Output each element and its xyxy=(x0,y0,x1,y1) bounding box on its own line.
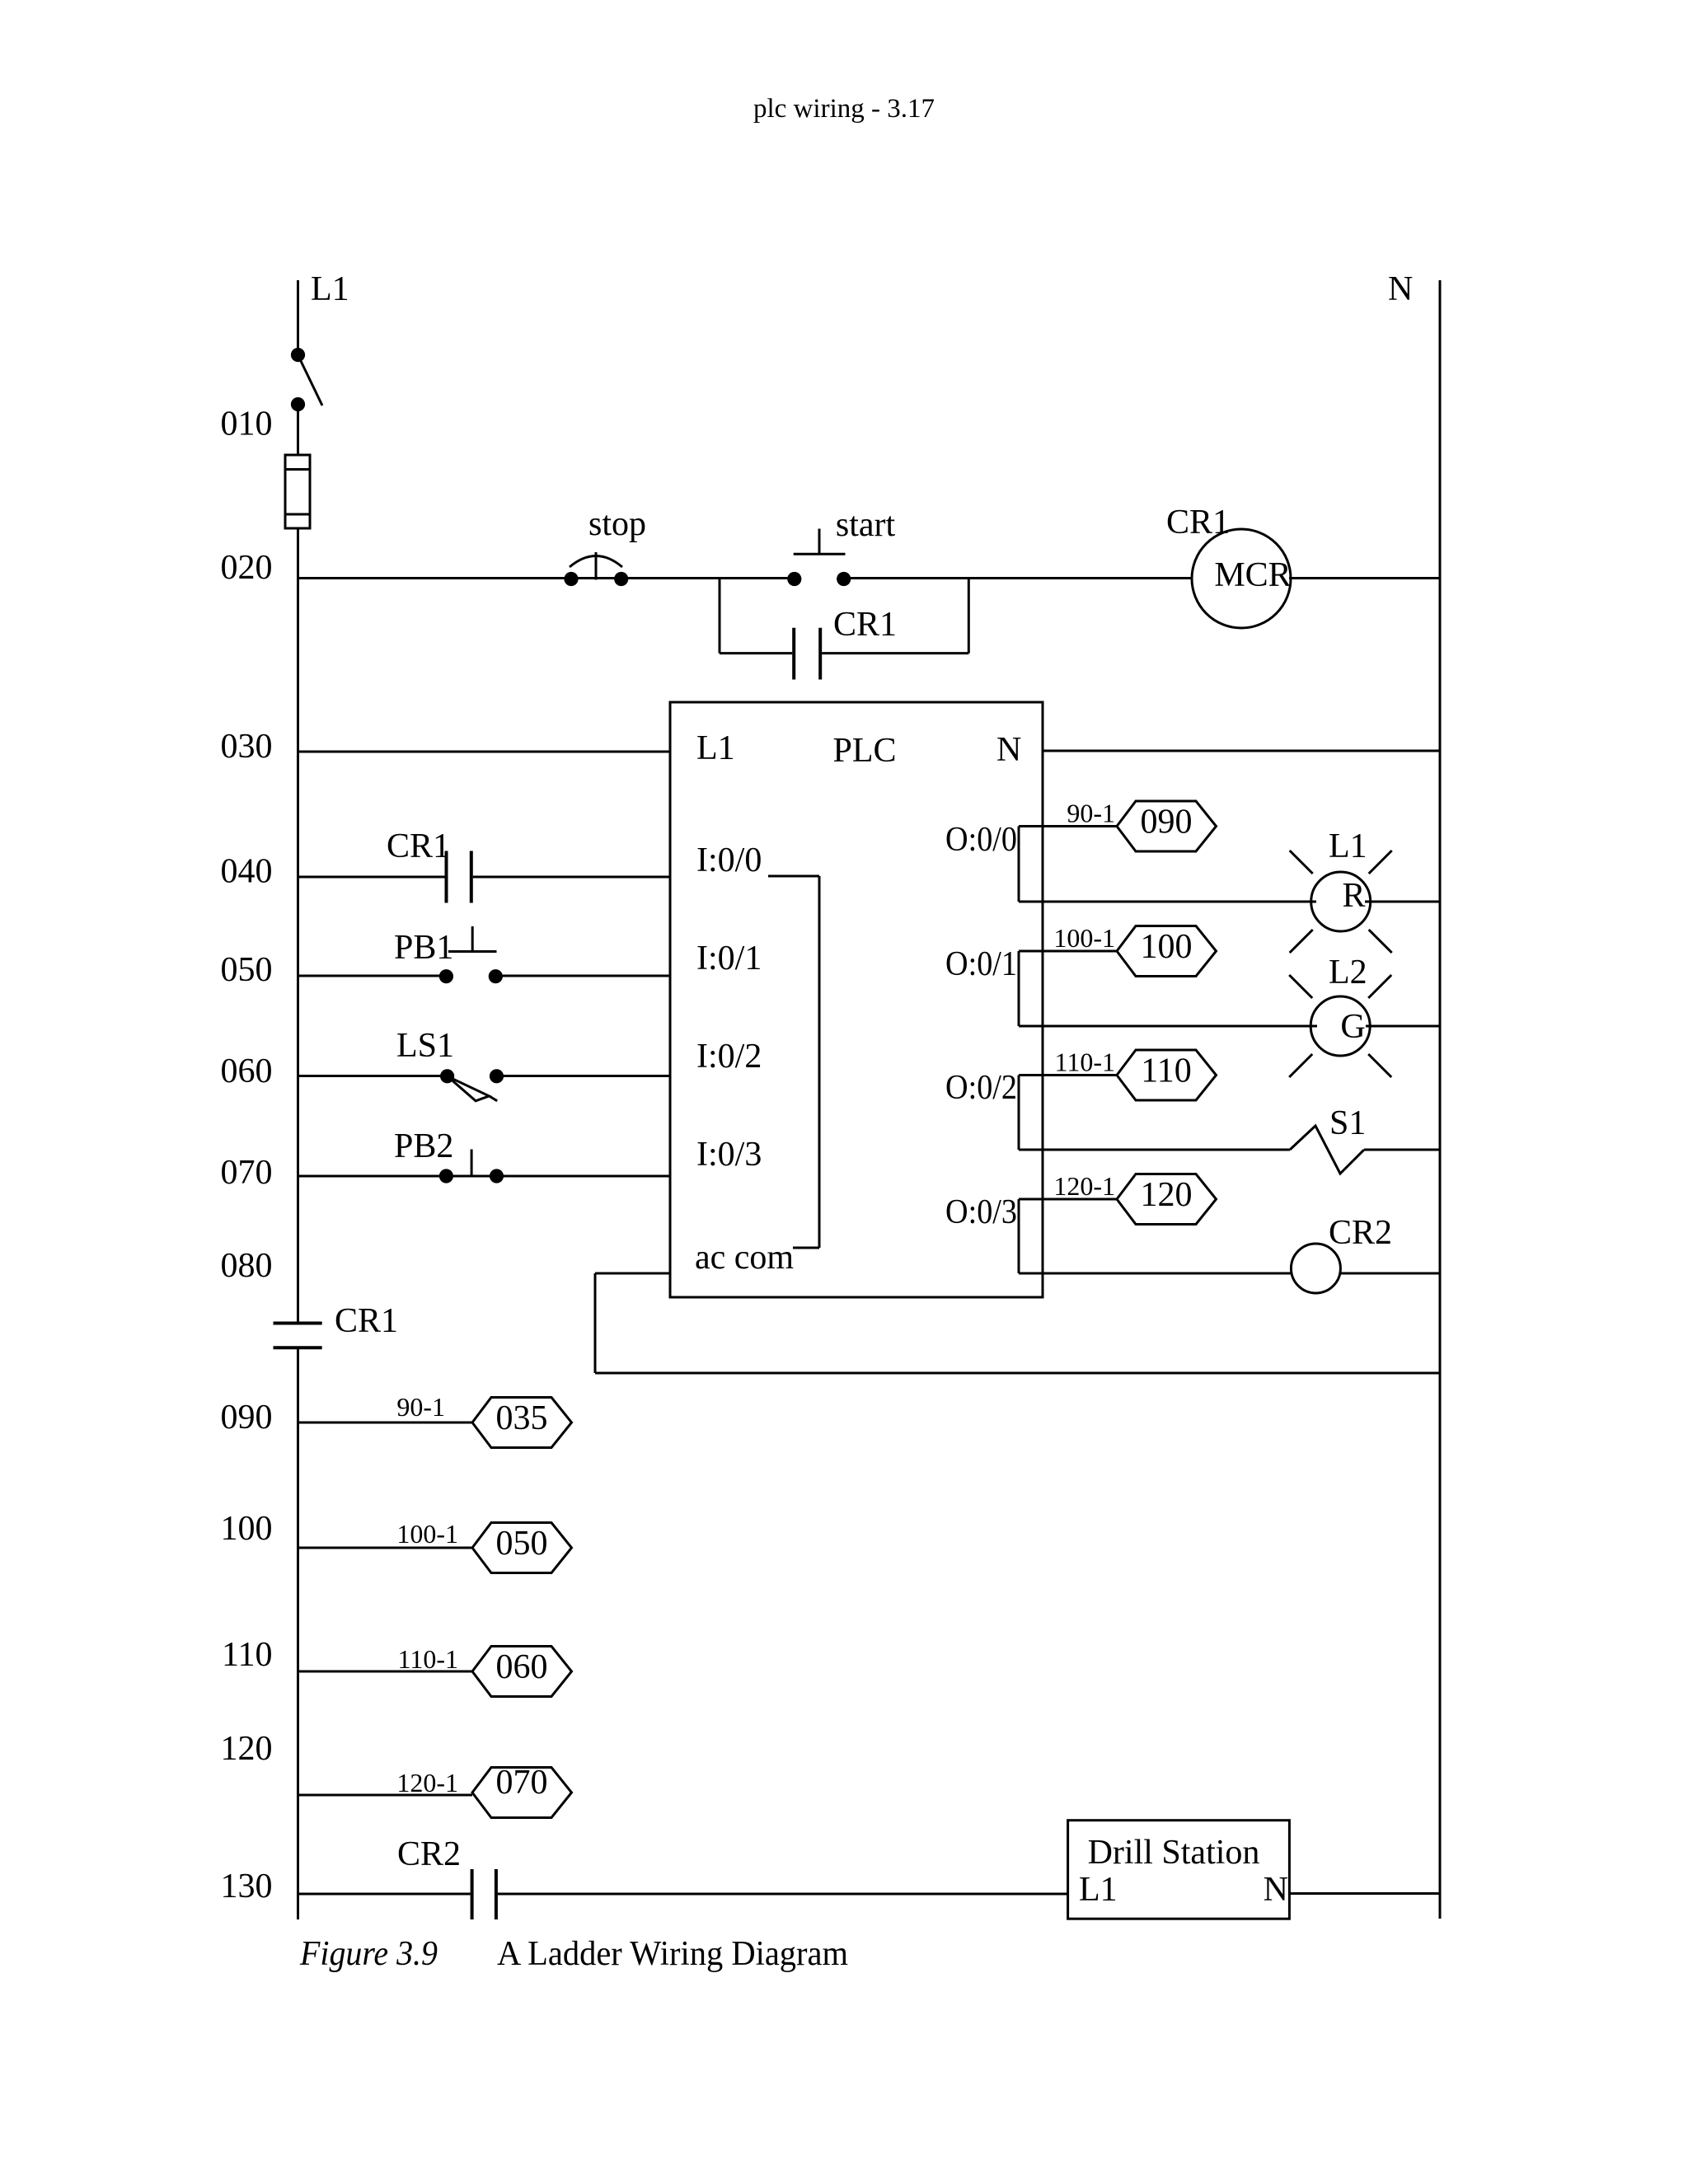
svg-text:CR1: CR1 xyxy=(1166,504,1230,541)
wire rail fuse to CR1 contact xyxy=(297,528,299,1324)
label PLC xyxy=(832,732,896,770)
svg-text:110-1: 110-1 xyxy=(398,1644,458,1674)
wire O:0/2 pin to tag xyxy=(1019,1074,1117,1076)
wire rung 060 right xyxy=(497,1075,671,1077)
wire CR2 coil to N rail xyxy=(1339,1272,1440,1275)
rung number 120 xyxy=(221,1730,273,1768)
svg-text:090: 090 xyxy=(1141,804,1193,841)
label CR2 coil xyxy=(1329,1214,1392,1252)
wire branch bottom left xyxy=(720,652,792,654)
svg-text:035: 035 xyxy=(496,1399,548,1437)
svg-text:100-1: 100-1 xyxy=(396,1519,458,1549)
rung number 030 xyxy=(221,728,273,766)
svg-text:A Ladder Wiring Diagram: A Ladder Wiring Diagram xyxy=(497,1935,848,1973)
wire L1 rail lower segment xyxy=(297,1347,299,1919)
label wire number 100-1 (left) xyxy=(396,1519,458,1549)
wire rung 120 to tag xyxy=(298,1794,473,1797)
svg-text:Figure 3.9: Figure 3.9 xyxy=(299,1935,438,1973)
svg-text:L1: L1 xyxy=(1079,1871,1118,1909)
rung number 040 xyxy=(221,853,273,891)
svg-text:R: R xyxy=(1342,877,1365,915)
svg-text:S1: S1 xyxy=(1329,1104,1366,1142)
caption figure number xyxy=(299,1935,438,1973)
wire O:0/3 to CR2 coil xyxy=(1019,1272,1292,1275)
svg-text:110: 110 xyxy=(1141,1052,1191,1090)
svg-text:90-1: 90-1 xyxy=(1067,799,1115,828)
rung number 080 xyxy=(221,1247,273,1285)
svg-text:120: 120 xyxy=(221,1730,273,1768)
drill station box xyxy=(1068,1821,1290,1919)
wire O:0/2 drop xyxy=(1018,1076,1020,1151)
wire O:0/1 pin to tag xyxy=(1019,950,1117,953)
label wire number 110-1 (left) xyxy=(398,1644,458,1674)
svg-text:L1: L1 xyxy=(696,729,735,767)
pushbutton PB2 terminal left xyxy=(439,1169,453,1183)
svg-text:Drill Station: Drill Station xyxy=(1088,1834,1260,1872)
pushbutton PB1 (NO) actuator xyxy=(448,926,497,952)
svg-text:080: 080 xyxy=(221,1247,273,1285)
svg-text:L1: L1 xyxy=(311,270,349,308)
svg-text:100: 100 xyxy=(1141,928,1193,966)
wire N rail xyxy=(1439,280,1442,1919)
pushbutton stop terminal right xyxy=(614,572,628,586)
wire rung 020 right xyxy=(844,577,1193,579)
pin N (PLC) xyxy=(996,731,1021,769)
pushbutton start terminal right xyxy=(837,572,851,586)
pin L1 (PLC) xyxy=(696,729,735,767)
svg-text:120: 120 xyxy=(1141,1176,1193,1214)
coil CR2 xyxy=(1291,1244,1340,1293)
svg-text:090: 090 xyxy=(221,1399,273,1436)
wire tag 120 hexagon xyxy=(1117,1174,1217,1225)
wire S1 to N rail xyxy=(1364,1149,1440,1151)
svg-text:O:0/0: O:0/0 xyxy=(945,821,1017,859)
svg-text:010: 010 xyxy=(221,405,273,443)
wire O:0/0 pin to tag xyxy=(1019,825,1117,827)
svg-text:CR2: CR2 xyxy=(1329,1214,1392,1252)
disconnect switch lower terminal xyxy=(291,397,305,411)
wire MCR to N rail xyxy=(1289,577,1440,579)
PLC U1 box xyxy=(670,702,1043,1297)
rung number 100 xyxy=(221,1510,273,1548)
svg-text:030: 030 xyxy=(221,728,273,766)
label PB1 xyxy=(394,929,453,967)
wire tag 090 hexagon xyxy=(1117,801,1217,851)
pushbutton PB1 terminal left xyxy=(439,969,453,983)
wire rung 020 left xyxy=(298,577,795,579)
svg-text:020: 020 xyxy=(221,549,273,587)
svg-text:060: 060 xyxy=(221,1052,273,1090)
pin O:0/2 xyxy=(945,1069,1017,1107)
label CR1 input contact xyxy=(387,827,450,865)
pin I:0/1 xyxy=(696,940,762,977)
svg-text:PB1: PB1 xyxy=(394,929,453,967)
wire O:0/1 drop xyxy=(1018,951,1020,1026)
svg-text:G: G xyxy=(1340,1008,1365,1046)
wire tag 070 hexagon xyxy=(472,1764,572,1818)
wire rung 030 L1 to PLC xyxy=(298,751,671,753)
pin O:0/0 xyxy=(945,821,1017,859)
label CR1 series contact xyxy=(335,1302,398,1340)
label LS1 xyxy=(396,1027,454,1065)
pin I:0/0 xyxy=(696,841,762,879)
wire branch right vertical xyxy=(968,579,970,654)
svg-text:MCR: MCR xyxy=(1214,556,1291,594)
label wire number 110-1 (right) xyxy=(1055,1047,1115,1077)
caption title xyxy=(497,1935,848,1973)
svg-text:070: 070 xyxy=(221,1154,273,1192)
pushbutton PB2 (NO) stem xyxy=(471,1150,473,1177)
pin O:0/1 xyxy=(945,945,1017,983)
rung number 110 xyxy=(222,1636,272,1674)
wire L1 rail top segment xyxy=(297,280,299,349)
wire lamp L1 to N rail xyxy=(1365,901,1440,903)
svg-text:start: start xyxy=(836,506,896,544)
wire tag 035 hexagon xyxy=(472,1398,572,1448)
wire tag 100 hexagon xyxy=(1117,926,1217,977)
fuse F1 xyxy=(285,455,310,528)
coil MCR xyxy=(1192,529,1292,628)
pushbutton stop (NC) arc xyxy=(570,552,622,580)
wire tag 110 hexagon xyxy=(1117,1050,1217,1100)
rung number 090 xyxy=(221,1399,273,1436)
label wire number 120-1 (left) xyxy=(396,1768,458,1797)
pushbutton stop terminal left xyxy=(564,572,578,586)
pin ac com xyxy=(695,1239,794,1277)
label CR2 contact xyxy=(397,1835,461,1873)
wire rung 130 left xyxy=(298,1893,471,1896)
wire rung 060 left xyxy=(298,1075,448,1077)
svg-text:120-1: 120-1 xyxy=(396,1768,458,1797)
label wire number 90-1 (right) xyxy=(1067,799,1115,828)
header page text xyxy=(753,94,935,124)
svg-text:I:0/2: I:0/2 xyxy=(696,1038,762,1076)
contact CR1 (NO) rung 040 xyxy=(447,851,471,903)
svg-text:110: 110 xyxy=(222,1636,272,1674)
wire O:0/0 to lamp L1 xyxy=(1019,901,1316,903)
wire rung 130 to drill station xyxy=(498,1893,1068,1896)
wire branch bottom right xyxy=(822,652,968,654)
svg-text:120-1: 120-1 xyxy=(1053,1171,1115,1201)
wire rung 040 right xyxy=(473,876,670,879)
wire rung 90 to tag xyxy=(298,1422,473,1424)
wire O:0/0 drop xyxy=(1018,827,1020,902)
wire tag 060 hexagon xyxy=(472,1647,572,1697)
pushbutton start (NO) actuator xyxy=(794,529,846,555)
svg-text:O:0/1: O:0/1 xyxy=(945,945,1017,983)
svg-text:100-1: 100-1 xyxy=(1053,923,1115,953)
contact CR1 seal-in (NO) xyxy=(794,628,820,680)
disconnect switch blade xyxy=(299,358,322,405)
svg-text:O:0/3: O:0/3 xyxy=(945,1193,1017,1231)
contact CR1 series (rail) xyxy=(274,1324,322,1348)
label lamp L2 xyxy=(1329,954,1367,991)
label CR1 seal-in xyxy=(833,606,897,644)
svg-text:CR1: CR1 xyxy=(833,606,897,644)
svg-text:PLC: PLC xyxy=(832,732,896,770)
pushbutton PB2 terminal right xyxy=(490,1169,504,1183)
svg-text:CR2: CR2 xyxy=(397,1835,461,1873)
svg-text:060: 060 xyxy=(496,1648,548,1686)
wire rung 100 to tag xyxy=(298,1547,473,1549)
label lamp L1 xyxy=(1329,827,1367,865)
rung number 020 xyxy=(221,549,273,587)
wire rail between switch and fuse xyxy=(297,410,299,456)
node L1 label xyxy=(311,270,349,308)
wire PLC N pin to N rail xyxy=(1043,750,1440,752)
wire ac com return xyxy=(595,1273,1440,1373)
svg-text:I:0/1: I:0/1 xyxy=(696,940,762,977)
svg-text:110-1: 110-1 xyxy=(1055,1047,1115,1077)
svg-text:90-1: 90-1 xyxy=(396,1392,445,1422)
svg-text:L1: L1 xyxy=(1329,827,1367,865)
svg-text:CR1: CR1 xyxy=(335,1302,398,1340)
wire branch left vertical xyxy=(719,579,721,654)
wire rung 050 right xyxy=(495,975,670,977)
rung number 010 xyxy=(221,405,273,443)
svg-text:130: 130 xyxy=(221,1868,273,1905)
rung number 050 xyxy=(221,951,273,989)
svg-text:L2: L2 xyxy=(1329,954,1367,991)
label S1 xyxy=(1329,1104,1366,1142)
limit switch LS1 lever xyxy=(448,1076,498,1101)
svg-text:LS1: LS1 xyxy=(396,1027,454,1065)
wire O:0/1 to lamp L2 xyxy=(1019,1025,1317,1028)
label wire number 90-1 (left) xyxy=(396,1392,445,1422)
rung number 060 xyxy=(221,1052,273,1090)
limit switch LS1 terminal right xyxy=(490,1069,504,1083)
svg-text:N: N xyxy=(1264,1871,1288,1909)
pushbutton PB1 terminal right xyxy=(489,969,503,983)
pin I:0/2 xyxy=(696,1038,762,1076)
wire rung 110 to tag xyxy=(298,1671,473,1673)
wire rung 050 left xyxy=(298,975,447,977)
wire rung 070 left xyxy=(298,1175,671,1178)
pin O:0/3 xyxy=(945,1193,1017,1231)
lamp L1 (R) xyxy=(1290,851,1392,953)
contact CR2 (NO) xyxy=(472,1869,496,1919)
wire lamp L2 to N rail xyxy=(1366,1025,1440,1028)
rung number 070 xyxy=(221,1154,273,1192)
node N label xyxy=(1388,270,1413,308)
svg-text:PB2: PB2 xyxy=(394,1127,453,1165)
label PB2 xyxy=(394,1127,453,1165)
svg-text:050: 050 xyxy=(221,951,273,989)
label CR1 coil xyxy=(1166,504,1230,541)
svg-text:N: N xyxy=(996,731,1021,769)
svg-text:CR1: CR1 xyxy=(387,827,450,865)
wire tag 050 hexagon xyxy=(472,1523,572,1573)
svg-text:ac com: ac com xyxy=(695,1239,794,1277)
wire O:0/2 to S1 xyxy=(1019,1149,1290,1151)
wire PLC internal common xyxy=(768,876,819,1248)
wire O:0/3 pin to tag xyxy=(1019,1198,1117,1201)
wire rung 040 left xyxy=(298,876,445,879)
label start xyxy=(836,506,896,544)
pin I:0/3 xyxy=(696,1136,762,1174)
limit switch LS1 terminal left xyxy=(440,1069,454,1083)
svg-text:100: 100 xyxy=(221,1510,273,1548)
svg-text:O:0/2: O:0/2 xyxy=(945,1069,1017,1107)
label stop xyxy=(588,505,646,543)
svg-text:I:0/0: I:0/0 xyxy=(696,841,762,879)
svg-text:N: N xyxy=(1388,270,1413,308)
wire drill station to N rail xyxy=(1289,1892,1440,1895)
label wire number 100-1 (right) xyxy=(1053,923,1115,953)
solenoid S1 zigzag xyxy=(1290,1126,1364,1174)
disconnect switch upper terminal xyxy=(291,348,305,362)
svg-text:stop: stop xyxy=(588,505,646,543)
svg-text:040: 040 xyxy=(221,853,273,891)
svg-text:050: 050 xyxy=(496,1525,548,1563)
rung number 130 xyxy=(221,1868,273,1905)
svg-text:I:0/3: I:0/3 xyxy=(696,1136,762,1174)
label wire number 120-1 (right) xyxy=(1053,1171,1115,1201)
wire O:0/3 drop xyxy=(1018,1199,1020,1273)
lamp L2 (G) xyxy=(1289,975,1391,1077)
svg-text:plc wiring - 3.17: plc wiring - 3.17 xyxy=(753,94,935,124)
svg-text:070: 070 xyxy=(496,1764,548,1802)
pushbutton start terminal left xyxy=(787,572,801,586)
